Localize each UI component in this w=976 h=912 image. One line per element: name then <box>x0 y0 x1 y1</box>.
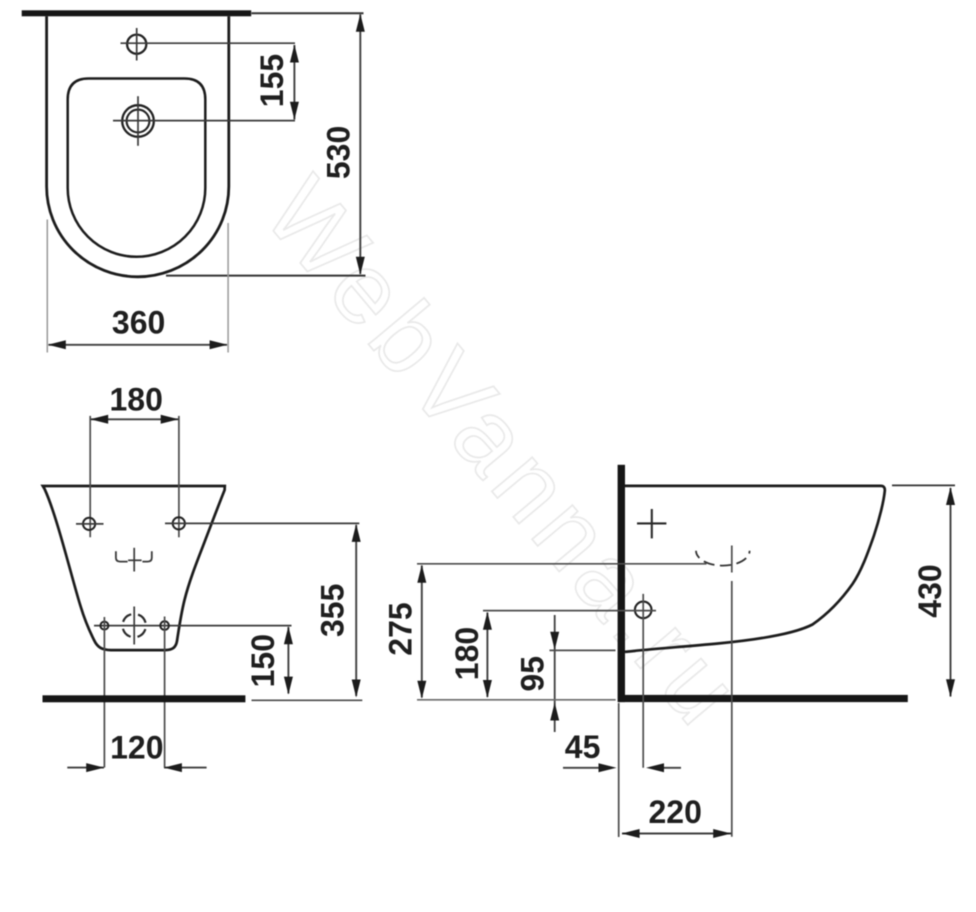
svg-text:45: 45 <box>565 729 601 765</box>
svg-text:180: 180 <box>449 627 485 680</box>
svg-text:150: 150 <box>245 634 281 687</box>
svg-text:220: 220 <box>649 794 702 830</box>
svg-text:95: 95 <box>515 656 551 692</box>
svg-text:155: 155 <box>254 54 290 107</box>
svg-text:WebVanna.ru: WebVanna.ru <box>243 157 765 749</box>
svg-text:355: 355 <box>314 584 350 637</box>
svg-text:360: 360 <box>112 305 165 341</box>
svg-text:430: 430 <box>912 564 948 617</box>
svg-text:530: 530 <box>321 126 357 179</box>
svg-text:120: 120 <box>110 730 163 766</box>
svg-text:275: 275 <box>382 602 418 655</box>
svg-text:180: 180 <box>110 381 163 417</box>
